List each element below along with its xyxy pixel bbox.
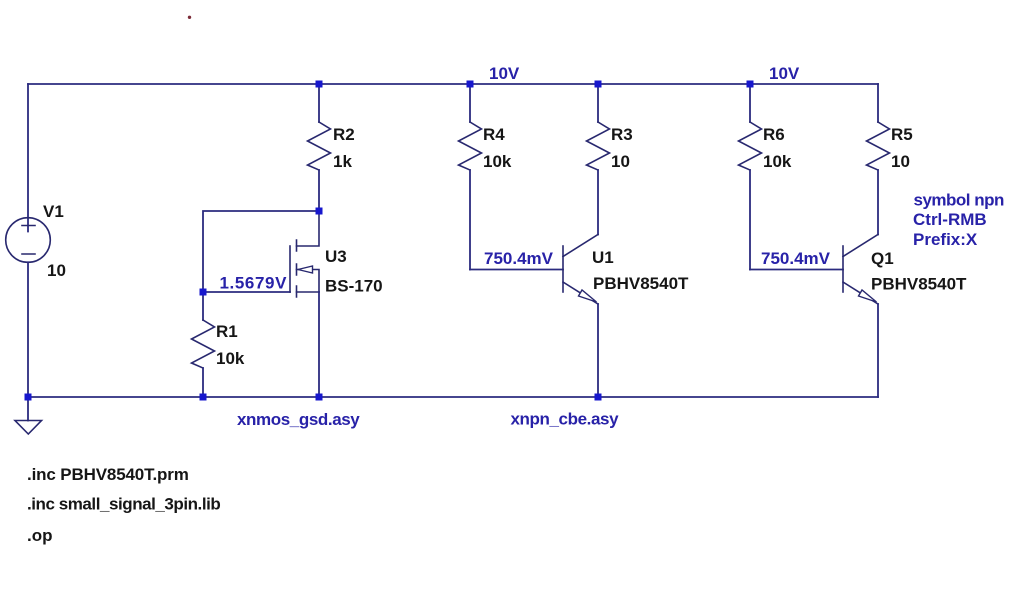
svg-text:750.4mV: 750.4mV [484, 249, 554, 268]
svg-text:PBHV8540T: PBHV8540T [871, 275, 967, 294]
node junction (top rail / R3) [595, 81, 602, 88]
svg-text:10: 10 [611, 152, 630, 171]
svg-text:V1: V1 [43, 202, 64, 221]
svg-text:xnpn_cbe.asy: xnpn_cbe.asy [511, 410, 620, 429]
svg-text:Prefix:X: Prefix:X [913, 230, 978, 249]
channel stubs [296, 240, 298, 297]
svg-text:10k: 10k [763, 152, 792, 171]
ground [15, 397, 42, 434]
resistor R3 [587, 84, 610, 235]
voltage source V1 [6, 218, 51, 263]
svg-text:.op: .op [27, 526, 53, 545]
svg-text:R2: R2 [333, 125, 355, 144]
npn transistor U1 [563, 235, 598, 398]
wire base lead Q1 [750, 269, 843, 271]
node junction (V1 minus / bottom rail) [25, 394, 32, 401]
wire top rail [28, 83, 878, 85]
wire gate lead [203, 291, 290, 293]
node junction (mos source / bottom rail) [316, 394, 323, 401]
svg-text:1.5679V: 1.5679V [220, 274, 288, 293]
svg-text:10V: 10V [489, 64, 520, 83]
svg-text:10k: 10k [216, 349, 245, 368]
resistor R6 [739, 84, 762, 270]
svg-text:symbol npn: symbol npn [914, 191, 1005, 210]
wire left vertical (bottom) [27, 262, 29, 397]
red speck artifact [188, 16, 191, 19]
node junction (top rail / R6) [747, 81, 754, 88]
node junction (top rail / R2) [316, 81, 323, 88]
node junction (U1 emitter / bottom rail) [595, 394, 602, 401]
nmos U3 [290, 211, 319, 397]
resistor R4 [459, 84, 482, 270]
npn transistor Q1 [843, 235, 878, 398]
drain lead [297, 211, 320, 246]
node junction (top rail / R4) [467, 81, 474, 88]
resistor R2 [308, 84, 331, 211]
svg-text:PBHV8540T: PBHV8540T [593, 274, 689, 293]
wire bottom rail [28, 396, 878, 398]
gate bar [289, 246, 291, 292]
svg-text:R1: R1 [216, 322, 238, 341]
svg-text:R6: R6 [763, 125, 785, 144]
node junction (R1 bottom / bottom rail) [200, 394, 207, 401]
node junction (gate / R1 top) [200, 289, 207, 296]
svg-text:R4: R4 [483, 125, 505, 144]
svg-text:R3: R3 [611, 125, 633, 144]
svg-text:10V: 10V [769, 64, 800, 83]
svg-text:BS-170: BS-170 [325, 277, 383, 296]
svg-text:U1: U1 [592, 248, 614, 267]
svg-text:R5: R5 [891, 125, 913, 144]
svg-text:.inc small_signal_3pin.lib: .inc small_signal_3pin.lib [27, 495, 220, 514]
svg-text:10: 10 [891, 152, 910, 171]
wire left vertical (top) [27, 84, 29, 232]
svg-text:Q1: Q1 [871, 249, 894, 268]
svg-text:Ctrl-RMB: Ctrl-RMB [913, 210, 987, 229]
node junction (R2 bottom / drain / gate net) [316, 208, 323, 215]
svg-text:.inc PBHV8540T.prm: .inc PBHV8540T.prm [27, 465, 189, 484]
svg-text:750.4mV: 750.4mV [761, 249, 831, 268]
svg-text:U3: U3 [325, 247, 347, 266]
wire base lead U1 [470, 269, 563, 271]
bulk arrow [297, 270, 320, 293]
svg-text:1k: 1k [333, 152, 352, 171]
wire gate net [203, 211, 319, 292]
resistor R1 [192, 292, 215, 397]
svg-text:10: 10 [47, 261, 66, 280]
source lead [297, 291, 320, 293]
svg-text:10k: 10k [483, 152, 512, 171]
resistor R5 [867, 84, 890, 235]
svg-text:xnmos_gsd.asy: xnmos_gsd.asy [237, 410, 360, 429]
